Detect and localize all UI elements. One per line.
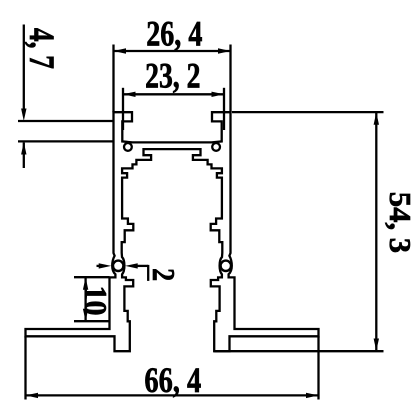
svg-text:4, 7: 4, 7 (22, 28, 61, 69)
svg-text:10: 10 (78, 286, 114, 316)
svg-text:23, 2: 23, 2 (145, 55, 200, 95)
svg-text:2: 2 (145, 268, 180, 281)
svg-text:54, 3: 54, 3 (383, 192, 417, 253)
svg-text:26, 4: 26, 4 (146, 13, 202, 53)
svg-text:66, 4: 66, 4 (144, 361, 201, 401)
